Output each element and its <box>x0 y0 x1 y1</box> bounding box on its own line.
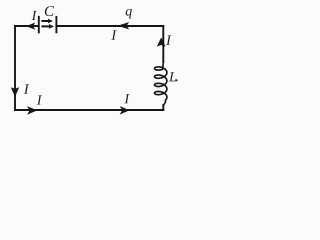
arrowhead I top-left pointing left <box>26 23 35 30</box>
arrowhead q top-right pointing left <box>117 22 129 29</box>
field arrow upper between plates <box>41 19 53 24</box>
label C <box>45 6 54 16</box>
inductor L coil <box>155 62 167 107</box>
label q <box>126 9 132 19</box>
label I left wire <box>24 84 29 93</box>
arrowhead I bottom-left pointing right <box>27 106 37 115</box>
arrowhead I bottom-right pointing right <box>120 106 130 115</box>
wire bottom <box>15 109 163 111</box>
wire top-right segment <box>57 25 163 27</box>
label I bottom-left <box>37 95 42 104</box>
period after L <box>176 79 178 81</box>
label L <box>169 72 176 81</box>
wire right upper <box>162 26 164 62</box>
capacitor C right plate <box>55 16 57 33</box>
arrowhead I left wire pointing down <box>11 87 19 97</box>
label I top-left <box>32 11 37 20</box>
label I bottom-right <box>124 94 129 103</box>
arrowhead I right wire pointing up <box>157 37 166 46</box>
label I right wire <box>166 36 171 45</box>
capacitor C left plate <box>38 16 40 33</box>
wire top-left segment <box>15 25 38 27</box>
wire right lower <box>162 105 164 110</box>
wire left side <box>14 26 16 110</box>
label I below top-right arrow <box>111 30 116 39</box>
field arrow lower between plates <box>41 24 54 29</box>
